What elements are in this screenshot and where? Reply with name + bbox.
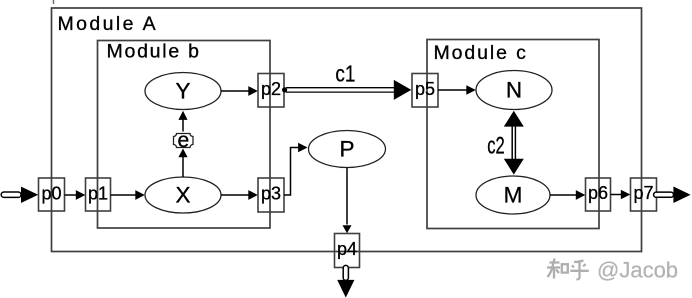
- svg-text:c1: c1: [335, 61, 355, 87]
- wire e to Y: [178, 111, 187, 132]
- svg-text:X: X: [175, 183, 190, 208]
- port p4: [335, 234, 360, 268]
- svg-text:p3: p3: [261, 184, 281, 204]
- svg-text:p2: p2: [261, 79, 281, 99]
- action P: [309, 131, 386, 168]
- wire X to e: [178, 149, 187, 178]
- port p6: [586, 178, 611, 211]
- wire p6 to p7: [611, 190, 631, 199]
- svg-text:e: e: [177, 129, 189, 152]
- svg-text:p4: p4: [337, 239, 357, 259]
- watermark zhihu glyphs: [547, 259, 589, 280]
- svg-text:Module A: Module A: [58, 13, 159, 35]
- wire p1 to X: [111, 190, 145, 200]
- svg-text:p7: p7: [633, 183, 653, 203]
- svg-text:p0: p0: [41, 184, 61, 204]
- input arrow into p0: [1, 187, 38, 203]
- wire p5 to N: [438, 85, 476, 94]
- output arrow from p4: [337, 265, 354, 297]
- port p7: [631, 178, 657, 211]
- svg-text:Module b: Module b: [107, 41, 201, 63]
- svg-text:N: N: [506, 78, 522, 103]
- svg-text:Module c: Module c: [434, 42, 528, 64]
- svg-text:P: P: [339, 137, 354, 162]
- port p0: [39, 178, 65, 211]
- connector c1 from p2 to p5: [282, 80, 411, 100]
- port p3: [258, 178, 284, 212]
- action N: [476, 71, 552, 110]
- connector c2 between N and M: [504, 111, 524, 175]
- action M: [476, 176, 550, 214]
- crop tick at top: [53, 0, 55, 4]
- wire Y to p2: [221, 86, 258, 96]
- wire P to p4: [343, 168, 352, 234]
- port p2: [258, 74, 284, 108]
- module b box: [98, 41, 271, 229]
- svg-text:c2: c2: [487, 133, 505, 160]
- svg-text:p5: p5: [415, 79, 435, 99]
- port p5: [412, 74, 438, 108]
- module c box: [427, 40, 599, 229]
- svg-text:@Jacob: @Jacob: [597, 258, 678, 283]
- svg-text:p1: p1: [88, 184, 108, 204]
- wire M to p6: [550, 190, 585, 200]
- output arrow from p7: [654, 187, 691, 204]
- svg-text:Y: Y: [175, 79, 190, 104]
- event e badge: [174, 129, 194, 152]
- svg-text:M: M: [504, 183, 523, 208]
- port p1: [86, 178, 111, 211]
- action Y: [145, 73, 221, 110]
- wire X to p3: [221, 190, 258, 200]
- wire p0 to p1: [65, 190, 86, 200]
- action X: [145, 177, 221, 213]
- module A box: [52, 8, 642, 252]
- wire p3 to P elbow: [284, 143, 308, 195]
- svg-text:p6: p6: [588, 183, 608, 203]
